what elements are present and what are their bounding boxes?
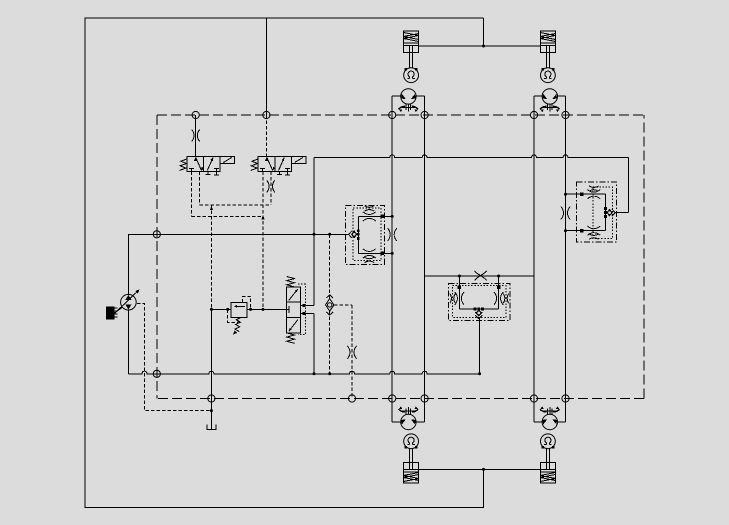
flushing valve symbol: [402, 410, 416, 412]
pv lower output: [301, 312, 314, 314]
relief valve pilot drop from valve 1: [210, 205, 212, 309]
relief valve pilot loop top: [242, 296, 250, 309]
right side drop to shuttle: [628, 158, 630, 213]
brake yoke nubs: [405, 446, 408, 449]
valve left box blocked port: [191, 169, 193, 172]
cylinder spring: [404, 473, 419, 482]
FC-left body: [357, 216, 359, 253]
shuttle ball seat: [351, 231, 357, 239]
pv bottom spring: [287, 333, 295, 343]
FC-left top orifices: [363, 212, 376, 215]
lower motor circle: [401, 414, 416, 429]
flushing valve symbol: [543, 410, 557, 412]
valve body boxes: [258, 156, 291, 171]
shuttle ball seat: [606, 209, 612, 217]
pump control link: [115, 307, 123, 313]
variable pump P1: [121, 294, 137, 310]
wire brake valve riser: [265, 18, 267, 115]
junction bottom brake line: [482, 468, 485, 471]
junction shuttle pilot upper: [328, 233, 331, 236]
motor flow triangles: [401, 94, 406, 99]
cylinder piston: [404, 42, 419, 44]
brake piston rod: [409, 45, 411, 69]
drain port circle left upper: [153, 231, 160, 238]
outer brake supply border: [85, 18, 484, 508]
valve left box arrow: [267, 158, 273, 171]
pilot header lower: [192, 215, 264, 217]
brake drum circle with omega: [404, 434, 419, 449]
brake yoke nubs: [405, 68, 408, 71]
spring cylinder body: [404, 31, 419, 52]
FC-left rail orifice: [388, 228, 391, 241]
cylinder piston: [404, 468, 419, 470]
motor port stubs: [392, 95, 401, 97]
rail right motor B: [565, 96, 567, 398]
wire top brake line to cylinders: [419, 45, 540, 47]
junction top brake line: [482, 45, 485, 48]
junction relief pilot right: [249, 308, 252, 311]
valve right box blocked port: [287, 169, 289, 172]
pv pilot dotted box: [298, 284, 306, 334]
case drain dashed loop top: [157, 114, 644, 116]
FC-bottom crossed orifice: [475, 271, 487, 281]
motor port measuring point right: [421, 111, 428, 118]
shuttle valve pilot network: [329, 234, 331, 299]
pilot shuttle output: [334, 304, 352, 306]
motor port measuring point left: [530, 395, 537, 402]
pilot junction dot v2: [262, 308, 265, 311]
solenoid valve V1 supply: [195, 115, 197, 156]
case drain dashed loop right: [643, 115, 645, 399]
rail right motor A: [533, 96, 535, 398]
motor port measuring point left: [530, 111, 537, 118]
junction rail pressure line: [313, 233, 316, 236]
pump variable arrow: [115, 291, 138, 314]
flushing valve symbol: [402, 107, 416, 109]
motor flow triangles: [543, 419, 548, 424]
flow control block FC-left dashdot enclosure: [345, 206, 384, 265]
motor port stubs: [534, 421, 543, 423]
pv top box arrow: [289, 289, 298, 301]
brake drum circle with omega: [404, 68, 419, 83]
FC-left dotted enclosure: [353, 208, 381, 261]
brake drum circle with omega: [541, 68, 556, 83]
junction shuttle pilot lower: [328, 372, 331, 375]
pump suction line down: [127, 310, 129, 374]
shuttle ball seat: [476, 309, 482, 317]
solenoid box: [220, 156, 234, 163]
pump control block: [106, 306, 115, 319]
pv upper output: [301, 304, 314, 306]
upper motor circle: [401, 89, 416, 104]
lower motor circle: [542, 414, 557, 429]
valve drain T marks: [207, 172, 209, 175]
case drain dashed loop left: [156, 115, 158, 399]
FC-right shuttle: [604, 207, 607, 210]
v1 pilot out right: [198, 172, 200, 206]
FC-bottom left orifices: [455, 292, 458, 305]
motor port stubs: [392, 421, 401, 423]
pilot port circle: [348, 395, 355, 402]
FC-bottom body: [458, 276, 460, 309]
pilot line orifice: [347, 346, 350, 359]
FC-left shuttle: [357, 229, 360, 232]
motor port measuring point left: [389, 111, 396, 118]
FC-right rail orifice: [561, 207, 564, 220]
valve left box blocked port: [262, 169, 264, 172]
junction case drain to tank line: [210, 409, 213, 412]
cylinder spring: [540, 473, 555, 482]
flow control block FC-bottom crossover line: [425, 275, 534, 277]
port circle v1 supply: [192, 111, 199, 118]
brake drum circle with omega: [541, 434, 556, 449]
FC-bottom output drop: [479, 317, 481, 374]
pv top spring: [287, 277, 295, 287]
wire bottom brake line to cylinders: [419, 468, 540, 470]
upper motor circle: [542, 89, 557, 104]
rail left motor B: [424, 96, 426, 398]
valve right box arrow: [279, 158, 285, 171]
servo pressure line: [211, 308, 231, 310]
motor port measuring point right: [421, 395, 428, 402]
upper crossover line: [314, 155, 629, 158]
spring cylinder body: [540, 31, 555, 52]
valve right box blocked port: [215, 169, 217, 172]
FC-right bottom orifices: [587, 226, 600, 229]
case drain dashed loop bottom: [157, 398, 644, 400]
brake release pilot line down: [351, 305, 353, 399]
v2 pilot out left: [262, 172, 264, 217]
left rail upper segment: [313, 158, 315, 306]
cylinder piston: [540, 42, 555, 44]
valve left box arrow: [196, 158, 202, 171]
junction relief pilot left: [226, 308, 229, 311]
solenoid box: [291, 156, 305, 163]
valve drain T marks: [278, 172, 280, 175]
flow control block FC-right dashdot enclosure: [577, 182, 617, 242]
motor port stubs: [534, 95, 543, 97]
FC-left bottom orifices: [363, 249, 376, 252]
brake piston rod: [409, 448, 411, 470]
v2 pilot out right: [270, 172, 272, 206]
spring cylinder body: [540, 462, 555, 483]
FC-right body: [605, 194, 607, 231]
valve return spring: [180, 159, 187, 171]
supply orifice v1: [192, 130, 194, 142]
v2 pilot orifice: [267, 180, 269, 192]
tank line: [210, 309, 212, 428]
valve return spring: [251, 159, 258, 171]
port circle v2 supply: [263, 111, 270, 118]
spring cylinder body: [404, 462, 419, 483]
pump outlet line up: [128, 234, 348, 294]
motor flow triangles: [401, 419, 406, 424]
cylinder spring: [540, 33, 555, 42]
tank symbol: [207, 425, 216, 430]
pv port arrows: [302, 304, 305, 307]
FC-bottom shuttle: [474, 308, 477, 311]
flushing valve symbol: [543, 107, 557, 109]
left rail lower segment: [313, 313, 315, 374]
brake yoke nubs: [541, 68, 544, 71]
solenoid valve V2 supply: [265, 115, 267, 156]
FC-bottom right orifices: [494, 292, 497, 305]
pump case drain line: [137, 304, 212, 411]
motor port measuring point right: [562, 395, 569, 402]
relief valve pilot loop left: [228, 309, 238, 322]
FC-bottom dashdot enclosure: [448, 284, 510, 321]
proportional valve PV1 body: [287, 287, 301, 333]
tank port circle: [208, 395, 215, 402]
valve body boxes: [187, 156, 220, 171]
cylinder spring: [404, 33, 419, 42]
pv middle blocked port: [287, 308, 290, 310]
rail left motor A: [391, 96, 393, 398]
brake yoke nubs: [541, 446, 544, 449]
FC-right dotted enclosure: [593, 187, 612, 239]
pilot shuttle valve: [326, 299, 334, 312]
brake piston rod: [546, 448, 548, 470]
v1 pilot out left: [191, 172, 193, 217]
FC-right top orifices: [587, 190, 600, 193]
relief valve spring: [235, 318, 241, 332]
motor port measuring point left: [389, 395, 396, 402]
motor flow triangles: [543, 94, 548, 99]
valve right box arrow: [207, 158, 213, 171]
brake piston rod: [546, 45, 548, 69]
pilot header upper: [199, 204, 270, 206]
relief valve pilot drop from valve 2: [262, 172, 264, 310]
pv bottom box arrow: [289, 320, 298, 332]
relief valve RV1 body: [231, 302, 247, 317]
motor port measuring point right: [562, 111, 569, 118]
FC-bottom dotted enclosure: [453, 286, 506, 318]
cylinder piston: [540, 468, 555, 470]
drain port circle left lower: [153, 370, 160, 377]
junction rail return line: [313, 372, 316, 375]
lower pressure line: [128, 371, 479, 374]
border right top segment: [483, 18, 485, 46]
